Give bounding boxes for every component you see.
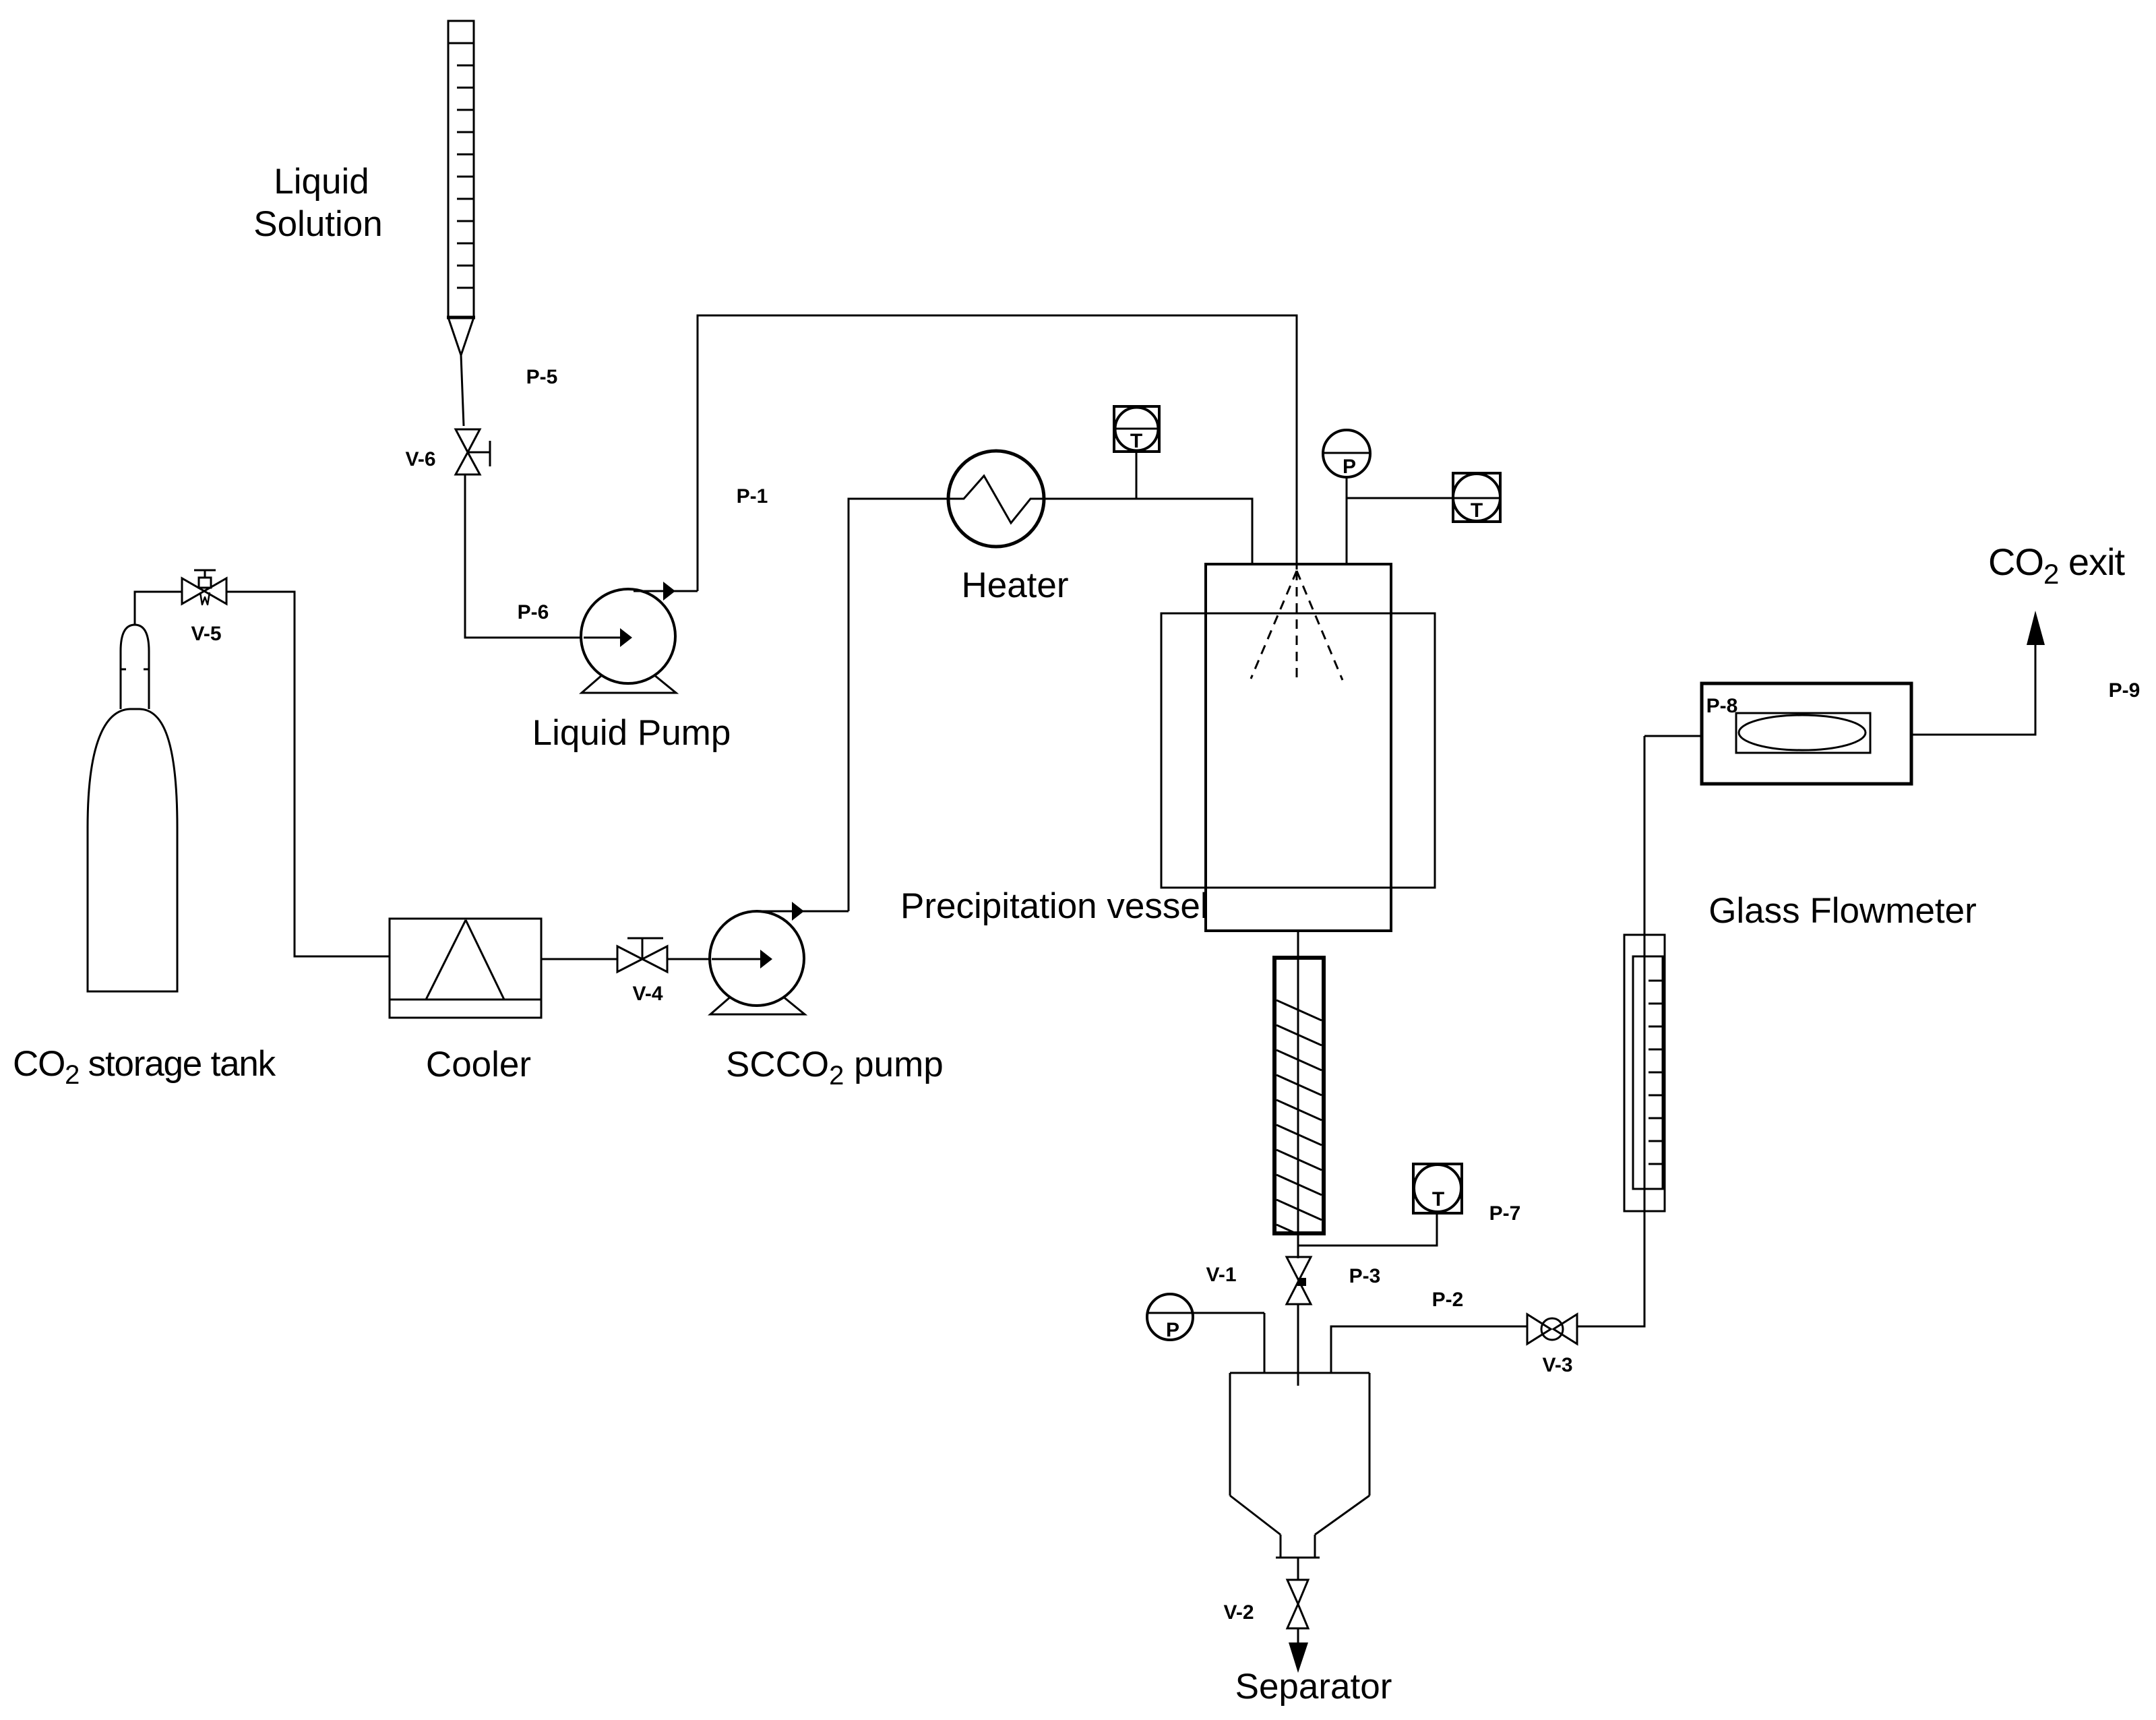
svg-text:P-3: P-3 <box>1349 1265 1381 1287</box>
CO2 exit arrow <box>2027 611 2045 645</box>
svg-text:V-3: V-3 <box>1542 1354 1572 1376</box>
pump SCCO2-pump <box>710 902 849 1014</box>
valve V-5 <box>182 570 226 605</box>
wire V-4 to SCCO2 pump <box>667 958 712 960</box>
filter cartridge <box>1274 958 1324 1270</box>
svg-text:P-8: P-8 <box>1706 695 1738 717</box>
wire rotameter to glass flowmeter <box>1644 735 1702 737</box>
outlet arrow below V-2 <box>1289 1628 1308 1673</box>
svg-text:P: P <box>1166 1319 1179 1341</box>
rotameter graduated tube <box>1624 736 1665 1211</box>
wire P gauge branch to T2 <box>1347 497 1453 499</box>
svg-text:P-9: P-9 <box>2109 679 2140 702</box>
svg-text:Cooler: Cooler <box>426 1045 531 1084</box>
svg-text:CO2 storage tank: CO2 storage tank <box>13 1044 276 1090</box>
instrument T2 temperature indicator <box>1453 473 1500 522</box>
wire heater to vessel top <box>1044 499 1252 565</box>
svg-text:P-1: P-1 <box>737 485 768 508</box>
valve V-2 <box>1287 1580 1308 1628</box>
wire burette to V-6 <box>461 355 464 426</box>
wire P-2 separator to V-3 <box>1331 1326 1527 1373</box>
svg-text:P-7: P-7 <box>1489 1202 1521 1225</box>
spray nozzle dashed cone <box>1251 571 1343 683</box>
wire P-1 liquid pump to vessel top <box>698 315 1297 591</box>
heater <box>948 451 1044 547</box>
instrument P pressure gauge (separator) <box>1147 1294 1264 1341</box>
precipitation vessel jacket <box>1161 613 1435 888</box>
svg-text:Heater: Heater <box>961 565 1068 605</box>
svg-text:V-5: V-5 <box>191 623 221 645</box>
instrument T1 temperature indicator <box>1114 406 1159 499</box>
wire V-6 to liquid pump <box>465 474 584 638</box>
pump liquid-pump <box>581 582 698 693</box>
wire V-3 to rotameter <box>1577 1211 1644 1326</box>
svg-text:V-4: V-4 <box>632 983 663 1005</box>
valve V-3 <box>1527 1314 1577 1344</box>
svg-text:Glass Flowmeter: Glass Flowmeter <box>1708 891 1977 931</box>
label Liquid Solution <box>253 162 383 244</box>
svg-text:V-6: V-6 <box>405 448 435 470</box>
wire cooler to V-4 <box>541 958 617 960</box>
valve V-4 <box>617 938 667 972</box>
svg-text:Separator: Separator <box>1235 1667 1392 1707</box>
svg-text:Solution: Solution <box>253 204 383 244</box>
CO2 storage tank <box>88 625 177 991</box>
svg-text:Liquid: Liquid <box>274 162 369 202</box>
svg-text:P-2: P-2 <box>1432 1289 1464 1311</box>
wire separator to V-2 <box>1297 1558 1299 1580</box>
glass flowmeter <box>1702 683 1911 784</box>
valve V-6 <box>456 429 490 474</box>
wire tank to V-5 <box>135 592 182 625</box>
svg-text:V-1: V-1 <box>1206 1264 1236 1286</box>
svg-text:P-6: P-6 <box>518 601 549 623</box>
svg-text:Liquid Pump: Liquid Pump <box>532 713 731 753</box>
wire vessel to filter <box>1297 931 1299 958</box>
wire flowmeter to CO2 exit arrow <box>1911 644 2035 735</box>
valve V-1 <box>1287 1257 1311 1304</box>
svg-text:P-5: P-5 <box>526 366 558 388</box>
svg-text:T: T <box>1432 1188 1444 1210</box>
precipitation vessel inner shell <box>1206 564 1391 931</box>
svg-text:Precipitation vessel: Precipitation vessel <box>900 886 1208 926</box>
wire V-5 to cooler <box>226 592 390 956</box>
burette (liquid solution feed) <box>447 21 475 355</box>
separator vessel <box>1230 1373 1369 1558</box>
wire SCCO2 pump to heater <box>849 499 948 911</box>
instrument P pressure gauge (vessel top) <box>1323 430 1370 565</box>
svg-text:P: P <box>1343 456 1356 478</box>
wire V-1 to separator <box>1297 1304 1299 1386</box>
svg-text:V-2: V-2 <box>1223 1601 1254 1624</box>
svg-text:T: T <box>1471 499 1483 522</box>
instrument T temperature indicator P-7 <box>1413 1164 1462 1213</box>
cooler <box>390 919 541 1018</box>
wire P gauge to separator top <box>1264 1313 1266 1373</box>
wire branch to P-7 indicator <box>1298 1213 1437 1246</box>
wire filter to V-1 <box>1297 1233 1299 1258</box>
svg-text:T: T <box>1130 430 1142 452</box>
